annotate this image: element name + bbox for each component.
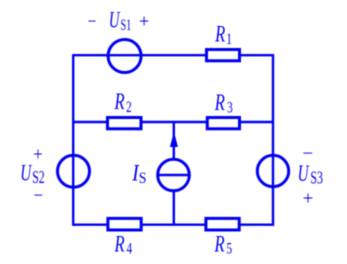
label US3 with polarity xyxy=(298,143,324,209)
svg-text:−: − xyxy=(34,184,44,205)
svg-text:+: + xyxy=(303,189,314,210)
resistor R1 xyxy=(207,50,240,61)
wire bottom (node across R4 and R5) xyxy=(73,223,273,225)
wire middle (node across R2 and R3) xyxy=(73,121,273,123)
resistor R4 xyxy=(108,218,141,230)
label US2 with polarity xyxy=(20,144,45,206)
resistor R3 xyxy=(207,118,239,129)
svg-text:−: − xyxy=(302,143,313,164)
wire left vertical xyxy=(72,54,74,226)
resistor R2 xyxy=(108,118,142,129)
label US1 with polarity xyxy=(88,9,150,34)
voltage source US3 xyxy=(257,155,288,186)
wire top (node across US1 and R1) xyxy=(73,54,273,56)
wire right vertical xyxy=(272,54,274,226)
svg-text:−: − xyxy=(88,11,97,32)
current source IS xyxy=(158,132,190,191)
svg-text:+: + xyxy=(139,11,149,33)
voltage source US1 xyxy=(108,40,141,73)
resistor R5 xyxy=(206,218,239,230)
svg-text:+: + xyxy=(33,144,42,165)
voltage source US2 xyxy=(58,155,90,187)
wire current-source branch xyxy=(173,122,175,225)
